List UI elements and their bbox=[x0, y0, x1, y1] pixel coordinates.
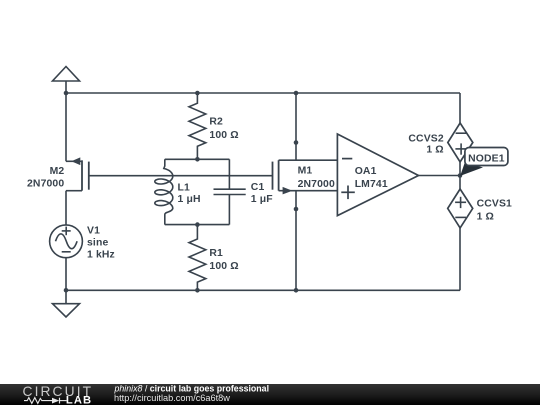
wire top rail bbox=[66, 92, 460, 94]
svg-text:CCVS1: CCVS1 bbox=[477, 198, 512, 209]
wire gate bus M2 to M1 bbox=[89, 175, 273, 177]
wire CCVS2 to node bbox=[459, 162, 461, 176]
transistor M1 bbox=[273, 160, 338, 194]
power VCC symbol bbox=[53, 67, 80, 94]
wire tank bottom edge bbox=[165, 224, 230, 226]
svg-text:C1: C1 bbox=[251, 182, 265, 193]
label CCVS2 bbox=[408, 133, 443, 155]
resistor R2 bbox=[189, 93, 206, 159]
wire right rail upper bbox=[459, 93, 461, 123]
label V1 bbox=[87, 225, 115, 260]
svg-text:100 Ω: 100 Ω bbox=[209, 261, 238, 272]
svg-text:LM741: LM741 bbox=[355, 179, 388, 190]
capacitor C1 bbox=[214, 159, 246, 224]
svg-text:R2: R2 bbox=[209, 117, 223, 128]
label R2 bbox=[209, 117, 238, 142]
wire right rail lower bbox=[459, 228, 461, 290]
node NODE1 flag bbox=[460, 148, 508, 176]
wire left rail upper bbox=[65, 93, 67, 161]
inductor L1 bbox=[155, 159, 173, 224]
wire center rail lower bbox=[295, 191, 297, 291]
svg-text:R1: R1 bbox=[209, 248, 223, 259]
label R1 bbox=[209, 248, 238, 272]
svg-text:100 Ω: 100 Ω bbox=[209, 130, 238, 141]
wire node to CCVS1 bbox=[459, 176, 461, 190]
svg-text:1 kHz: 1 kHz bbox=[87, 250, 115, 261]
svg-text:1 μH: 1 μH bbox=[178, 194, 201, 205]
svg-text:V1: V1 bbox=[87, 225, 100, 236]
wire tank top edge bbox=[165, 158, 230, 160]
CCVS1 source bbox=[448, 189, 473, 228]
svg-text:OA1: OA1 bbox=[355, 166, 377, 177]
CCVS2 source bbox=[448, 123, 473, 162]
label OA1 bbox=[355, 166, 388, 190]
ground bbox=[53, 290, 80, 317]
label C1 bbox=[251, 182, 273, 205]
footer logo CIRCUIT LAB bbox=[23, 384, 94, 405]
svg-text:M2: M2 bbox=[50, 166, 65, 177]
svg-text:2N7000: 2N7000 bbox=[298, 179, 335, 190]
svg-text:M1: M1 bbox=[298, 166, 313, 177]
svg-text:http://circuitlab.com/c6a6t8w: http://circuitlab.com/c6a6t8w bbox=[114, 393, 230, 403]
footer bar bbox=[0, 384, 540, 405]
svg-text:sine: sine bbox=[87, 238, 108, 249]
label L1 bbox=[178, 183, 201, 206]
wire center rail upper bbox=[295, 93, 297, 160]
wire V1 to bottom rail bbox=[65, 258, 67, 291]
svg-text:1 Ω: 1 Ω bbox=[426, 145, 443, 156]
wire op-amp output bbox=[419, 175, 461, 177]
svg-text:2N7000: 2N7000 bbox=[27, 179, 64, 190]
svg-text:1 Ω: 1 Ω bbox=[477, 212, 494, 223]
label M1 bbox=[298, 166, 335, 191]
transistor M2 bbox=[66, 157, 89, 190]
wire bottom rail bbox=[66, 289, 460, 291]
wire M2 source to V1 bbox=[65, 191, 67, 225]
label M2 bbox=[27, 166, 64, 190]
voltage source V1 bbox=[50, 225, 83, 258]
svg-text:1 μF: 1 μF bbox=[251, 194, 273, 205]
svg-text:LAB: LAB bbox=[66, 395, 92, 405]
label CCVS1 bbox=[477, 198, 512, 222]
svg-text:NODE1: NODE1 bbox=[468, 154, 505, 165]
resistor R1 bbox=[189, 225, 206, 291]
svg-text:CCVS2: CCVS2 bbox=[408, 133, 443, 144]
svg-text:L1: L1 bbox=[178, 183, 190, 194]
op-amp OA1 bbox=[337, 134, 418, 216]
